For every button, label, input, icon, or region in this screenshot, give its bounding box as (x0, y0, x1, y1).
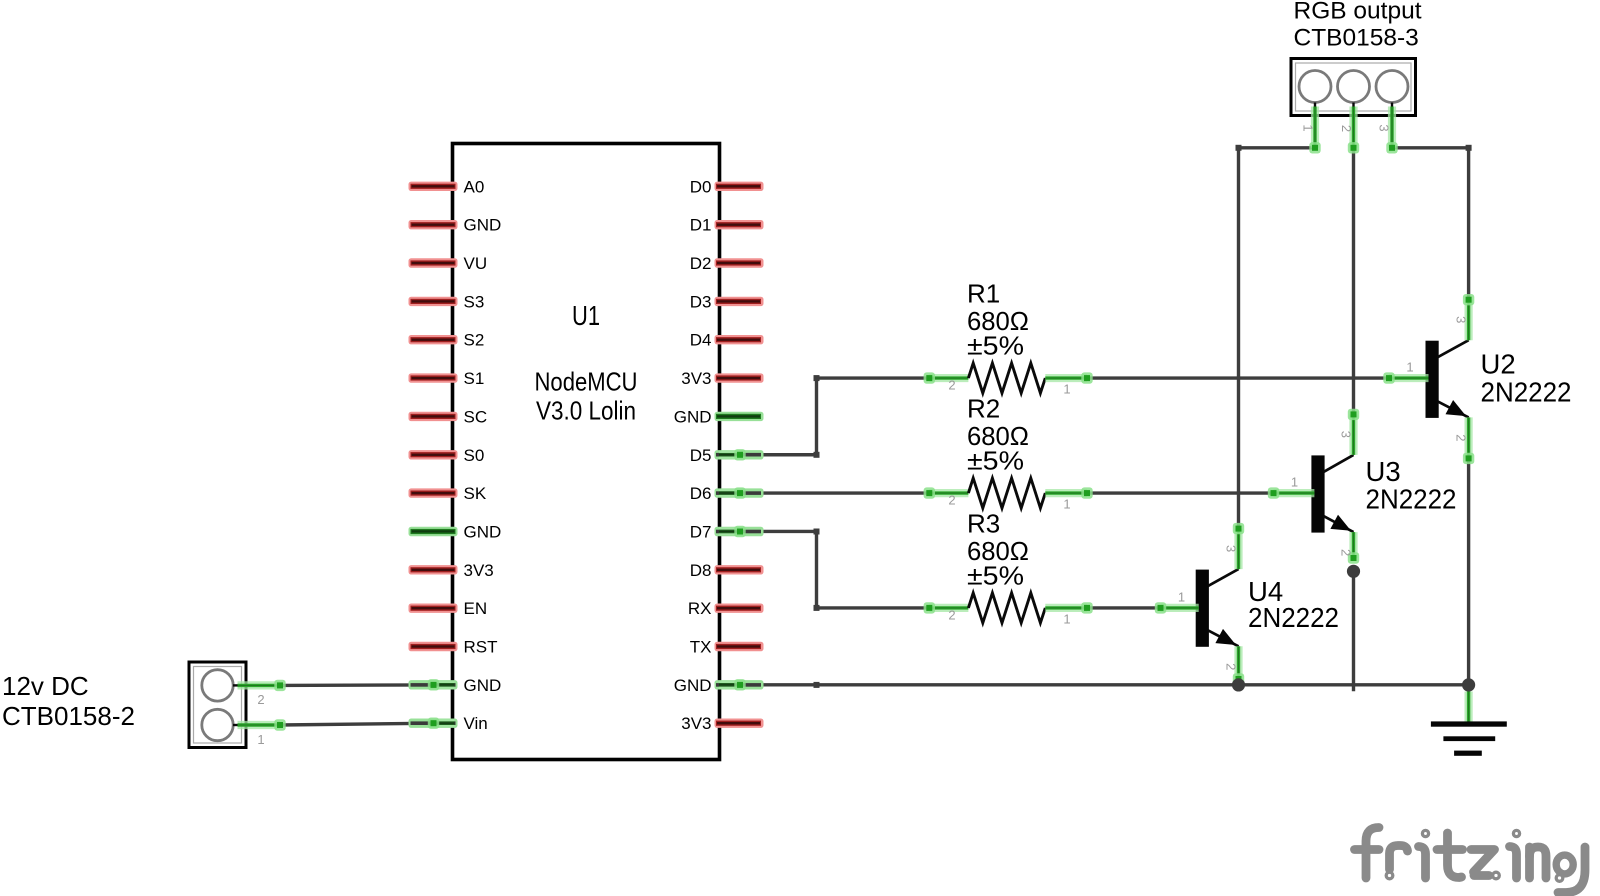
wire: R3 to U4 base (1087, 606, 1161, 609)
pin S3 (left row 4) of U1 (409, 297, 458, 306)
pin EN (left row 12) of U1 (409, 604, 458, 613)
pin D1 (right row 2) of U1 (715, 220, 764, 229)
svg-text:GND: GND (464, 676, 502, 695)
svg-text:TX: TX (690, 638, 712, 657)
svg-text:2: 2 (1339, 549, 1354, 556)
svg-text:D1: D1 (690, 216, 712, 235)
transistor U4 emitter line (1208, 630, 1239, 646)
wire: J1 pin 1 stub (233, 724, 238, 726)
wire: RGB pin3 vertical drop to U2 collector (1467, 148, 1470, 300)
transistor U2 base bar (1426, 341, 1439, 418)
connector J1 pin 2 circle (202, 670, 233, 701)
wire: GND bus (740, 683, 1469, 686)
svg-text:VU: VU (464, 254, 488, 273)
wire: right terminal of R2 (1045, 489, 1087, 497)
pin GND (left row 10) of U1 (409, 527, 458, 536)
pin D7 (right row 10) of U1 (715, 527, 764, 536)
svg-text:2: 2 (1454, 434, 1469, 441)
wire: bendpoint square D7 corner upper (814, 529, 820, 535)
wire: RGB pin 3 green drop (1391, 103, 1393, 108)
svg-text:GND: GND (464, 522, 502, 541)
pin D0 (right row 1) of U1 (715, 182, 764, 191)
wire: bendpoint square RGB pin3 corner (1466, 145, 1472, 151)
transistor U4 base bar (1196, 570, 1209, 647)
wire: bendpoint square D7 corner lower (814, 605, 820, 611)
svg-text:R1: R1 (967, 279, 1000, 309)
wire: green net overlay on U1 D7 pin (719, 527, 741, 535)
svg-text:S2: S2 (464, 331, 485, 350)
wire: bendpoint square RGB pin1 corner (1236, 145, 1242, 151)
svg-text:D8: D8 (690, 561, 712, 580)
svg-text:2: 2 (1224, 663, 1239, 670)
wire: bendpoint square D5 corner upper (814, 375, 820, 381)
fritzing watermark (1355, 828, 1586, 893)
junction dot U4 emitter on GND bus (1232, 678, 1245, 691)
wire: D7 to R3 (net D7) (740, 531, 929, 607)
svg-text:1: 1 (1063, 382, 1070, 397)
pin S0 (left row 8) of U1 (409, 450, 458, 459)
svg-text:U1: U1 (572, 300, 600, 331)
wire: base pin of U3 (1274, 489, 1315, 497)
svg-text:GND: GND (674, 676, 712, 695)
wire: J1 pin1 to U1 Vin (280, 723, 434, 725)
wire: green net overlay on U1 Vin pin (434, 719, 455, 727)
svg-text:RX: RX (688, 599, 712, 618)
svg-text:D5: D5 (690, 446, 712, 465)
wire: collector pin of U3 (1349, 414, 1357, 455)
svg-text:GND: GND (674, 407, 712, 426)
svg-text:2: 2 (948, 607, 955, 622)
svg-text:2N2222: 2N2222 (1481, 377, 1572, 408)
resistor R1 zigzag (968, 363, 1045, 393)
transistor U3 emitter arrow (1330, 515, 1351, 531)
pin D8 (right row 11) of U1 (715, 565, 764, 574)
svg-text:SK: SK (464, 484, 487, 503)
wire: green net overlay on U1 right GND pin (719, 681, 741, 689)
pin GND (left row 14) of U1 (409, 680, 458, 689)
pin D2 (right row 3) of U1 (715, 258, 764, 267)
wire: RGB pin3 horizontal run (1392, 146, 1469, 149)
wire: left terminal of R3 (929, 604, 968, 612)
svg-text:1: 1 (1406, 360, 1413, 375)
pin RX (right row 12) of U1 (715, 604, 764, 613)
svg-text:3: 3 (1454, 316, 1469, 323)
wire: green net overlay on U1 left GND pin (434, 681, 455, 689)
wire: base pin of U2 (1389, 374, 1429, 382)
transistor U2 collector line (1438, 340, 1469, 357)
svg-text:3V3: 3V3 (681, 714, 711, 733)
connector RGB pin 1 circle (1299, 71, 1331, 103)
svg-text:±5%: ±5% (967, 331, 1024, 361)
svg-text:Vin: Vin (464, 714, 488, 733)
svg-text:SC: SC (464, 407, 488, 426)
svg-text:U3: U3 (1366, 456, 1401, 487)
wire: collector pin of U2 (1464, 300, 1472, 341)
transistor U3 base bar (1311, 455, 1324, 532)
svg-text:3: 3 (1339, 431, 1354, 438)
transistor U4 collector line (1208, 569, 1239, 586)
wire: base pin of U4 (1161, 604, 1199, 612)
wire: bendpoint square on GND bus (814, 682, 820, 688)
wire: J1 pin2 to U1 GND (280, 683, 434, 687)
svg-text:S1: S1 (464, 369, 485, 388)
wire: bendpoint square D5 corner lower (814, 452, 820, 458)
wire: J1 pin 2 stub (233, 684, 238, 686)
svg-text:U2: U2 (1481, 349, 1516, 380)
svg-text:D2: D2 (690, 254, 712, 273)
svg-text:D0: D0 (690, 177, 712, 196)
wire: U3 emitter down to GND bus (1352, 571, 1355, 689)
IC U1 NodeMCU body (453, 144, 720, 760)
svg-text:CTB0158-2: CTB0158-2 (2, 701, 135, 731)
svg-text:2: 2 (948, 378, 955, 393)
pin 3V3 (right row 15) of U1 (715, 719, 764, 728)
pin D4 (right row 5) of U1 (715, 335, 764, 344)
transistor U2 emitter arrow (1446, 400, 1467, 416)
transistor U3 collector line (1324, 455, 1354, 472)
svg-text:1: 1 (1063, 611, 1070, 626)
svg-text:NodeMCU: NodeMCU (535, 367, 638, 397)
wire: U2 emitter down to GND bus (1467, 458, 1470, 685)
svg-text:D6: D6 (690, 484, 712, 503)
pin D6 (right row 9) of U1 (715, 488, 764, 497)
pin S2 (left row 5) of U1 (409, 335, 458, 344)
connector J1 12v DC CTB0158-2 body (189, 662, 246, 748)
pin GND (left row 2) of U1 (409, 220, 458, 229)
svg-text:2N2222: 2N2222 (1248, 602, 1339, 633)
svg-text:RGB output: RGB output (1294, 0, 1422, 25)
pin RST (left row 13) of U1 (409, 642, 458, 651)
pin TX (right row 13) of U1 (715, 642, 764, 651)
svg-text:V3.0 Lolin: V3.0 Lolin (536, 396, 636, 426)
connector RGB output CTB0158-3 body (1291, 59, 1416, 116)
transistor U3 emitter line (1324, 516, 1354, 532)
svg-text:±5%: ±5% (967, 560, 1024, 590)
wire: RGB pin1 vertical drop to U4 collector (1237, 148, 1240, 529)
pin A0 (left row 1) of U1 (409, 182, 458, 191)
wire: left terminal of R1 (929, 374, 968, 382)
connector RGB pin 3 circle (1376, 71, 1408, 103)
wire: RGB pin1 horizontal run (1239, 146, 1316, 149)
wire: right terminal of R3 (1045, 604, 1087, 612)
junction dot U3 emitter bendpoint (1347, 565, 1360, 578)
pin 3V3 (left row 11) of U1 (409, 565, 458, 574)
pin VU (left row 3) of U1 (409, 258, 458, 267)
pin D5 (right row 8) of U1 (715, 450, 764, 459)
svg-text:D7: D7 (690, 522, 712, 541)
wire: left terminal of R2 (929, 489, 968, 497)
svg-text:1: 1 (257, 732, 264, 747)
svg-text:CTB0158-3: CTB0158-3 (1294, 25, 1419, 52)
svg-text:2: 2 (257, 692, 264, 707)
connector RGB pin 2 circle (1338, 71, 1370, 103)
pin GND (right row 14) of U1 (715, 680, 764, 689)
svg-text:1: 1 (1063, 497, 1070, 512)
wire: green segment at J1 pin 2 (238, 681, 281, 689)
wire: collector pin of U4 (1234, 529, 1242, 570)
svg-text:3: 3 (1377, 124, 1392, 131)
svg-text:12v DC: 12v DC (2, 671, 89, 701)
svg-text:D4: D4 (690, 331, 712, 350)
svg-text:3V3: 3V3 (464, 561, 494, 580)
svg-text:D3: D3 (690, 292, 712, 311)
wire: RGB pin 2 green drop (1352, 103, 1354, 108)
svg-text:1: 1 (1178, 589, 1185, 604)
pin D3 (right row 4) of U1 (715, 297, 764, 306)
ground symbol (1464, 692, 1472, 724)
svg-text:1: 1 (1291, 475, 1298, 490)
wire: emitter pin of U3 (1349, 532, 1357, 558)
wire: R2 to U3 base (1087, 491, 1274, 494)
svg-text:R2: R2 (967, 394, 1000, 424)
svg-text:3: 3 (1224, 545, 1239, 552)
wire: right terminal of R1 (1045, 374, 1087, 382)
svg-text:2: 2 (948, 493, 955, 508)
svg-text:GND: GND (464, 216, 502, 235)
resistor R2 zigzag (968, 478, 1045, 508)
svg-text:S0: S0 (464, 446, 485, 465)
pin S1 (left row 6) of U1 (409, 373, 458, 382)
svg-text:A0: A0 (464, 177, 485, 196)
wire: green net overlay on U1 D5 pin (719, 451, 741, 459)
svg-text:R3: R3 (967, 508, 1000, 538)
svg-text:RST: RST (464, 638, 498, 657)
pin SK (left row 9) of U1 (409, 488, 458, 497)
wire: R1 to U2 base (1087, 376, 1389, 379)
svg-text:±5%: ±5% (967, 446, 1024, 476)
junction dot ground tap on GND bus (1462, 678, 1475, 691)
svg-text:1: 1 (1301, 124, 1316, 131)
svg-text:2N2222: 2N2222 (1366, 484, 1457, 515)
wire: green net overlay on U1 D6 pin (719, 489, 741, 497)
pin SC (left row 7) of U1 (409, 412, 458, 421)
svg-text:S3: S3 (464, 292, 485, 311)
transistor U2 emitter line (1438, 401, 1469, 417)
wire: D6 to R2 (net D6) (740, 491, 929, 494)
wire: RGB pin 1 green drop (1314, 103, 1316, 108)
wire: emitter pin of U4 (1234, 646, 1242, 679)
connector J1 pin 1 circle (202, 709, 233, 740)
wire: D5 to R1 (net D5) (740, 378, 929, 455)
svg-text:EN: EN (464, 599, 488, 618)
wire: RGB pin2 vertical drop to U3 collector (1352, 148, 1355, 415)
wire: emitter pin of U2 (1464, 417, 1472, 458)
pin Vin (left row 15) of U1 (409, 719, 458, 728)
pin GND (right row 7) of U1 (715, 412, 764, 421)
transistor U4 emitter arrow (1215, 629, 1236, 645)
resistor R3 zigzag (968, 593, 1045, 623)
svg-text:2: 2 (1339, 125, 1354, 132)
svg-text:3V3: 3V3 (681, 369, 711, 388)
pin 3V3 (right row 6) of U1 (715, 373, 764, 382)
wire: green segment at J1 pin 1 (238, 721, 281, 729)
